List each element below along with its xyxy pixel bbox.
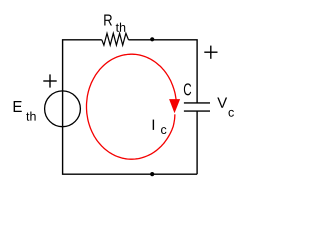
junction node top bbox=[150, 37, 154, 41]
wire right lower segment bbox=[196, 111, 198, 174]
label R bbox=[104, 14, 112, 25]
current direction arrowhead bbox=[169, 99, 180, 113]
label C bbox=[184, 83, 191, 95]
wire top right + right upper (continuous) bbox=[129, 40, 198, 103]
label E bbox=[14, 101, 22, 112]
label I subscript c bbox=[161, 127, 166, 134]
label I bbox=[153, 120, 154, 130]
label V subscript c bbox=[229, 110, 234, 117]
wire top left + left side + bottom (continuous) bbox=[63, 40, 198, 174]
capacitor C plates bbox=[184, 103, 210, 111]
resistor R_th zigzag bbox=[102, 33, 129, 45]
current loop I_c (red, clockwise) bbox=[87, 54, 177, 159]
junction node bottom bbox=[150, 172, 154, 176]
plus polarity of capacitor voltage bbox=[204, 46, 217, 59]
label V bbox=[217, 97, 227, 107]
plus polarity of source bbox=[43, 74, 56, 87]
label R subscript th bbox=[116, 23, 125, 32]
voltage source E_th circle bbox=[45, 91, 81, 127]
label E subscript th bbox=[26, 112, 35, 121]
